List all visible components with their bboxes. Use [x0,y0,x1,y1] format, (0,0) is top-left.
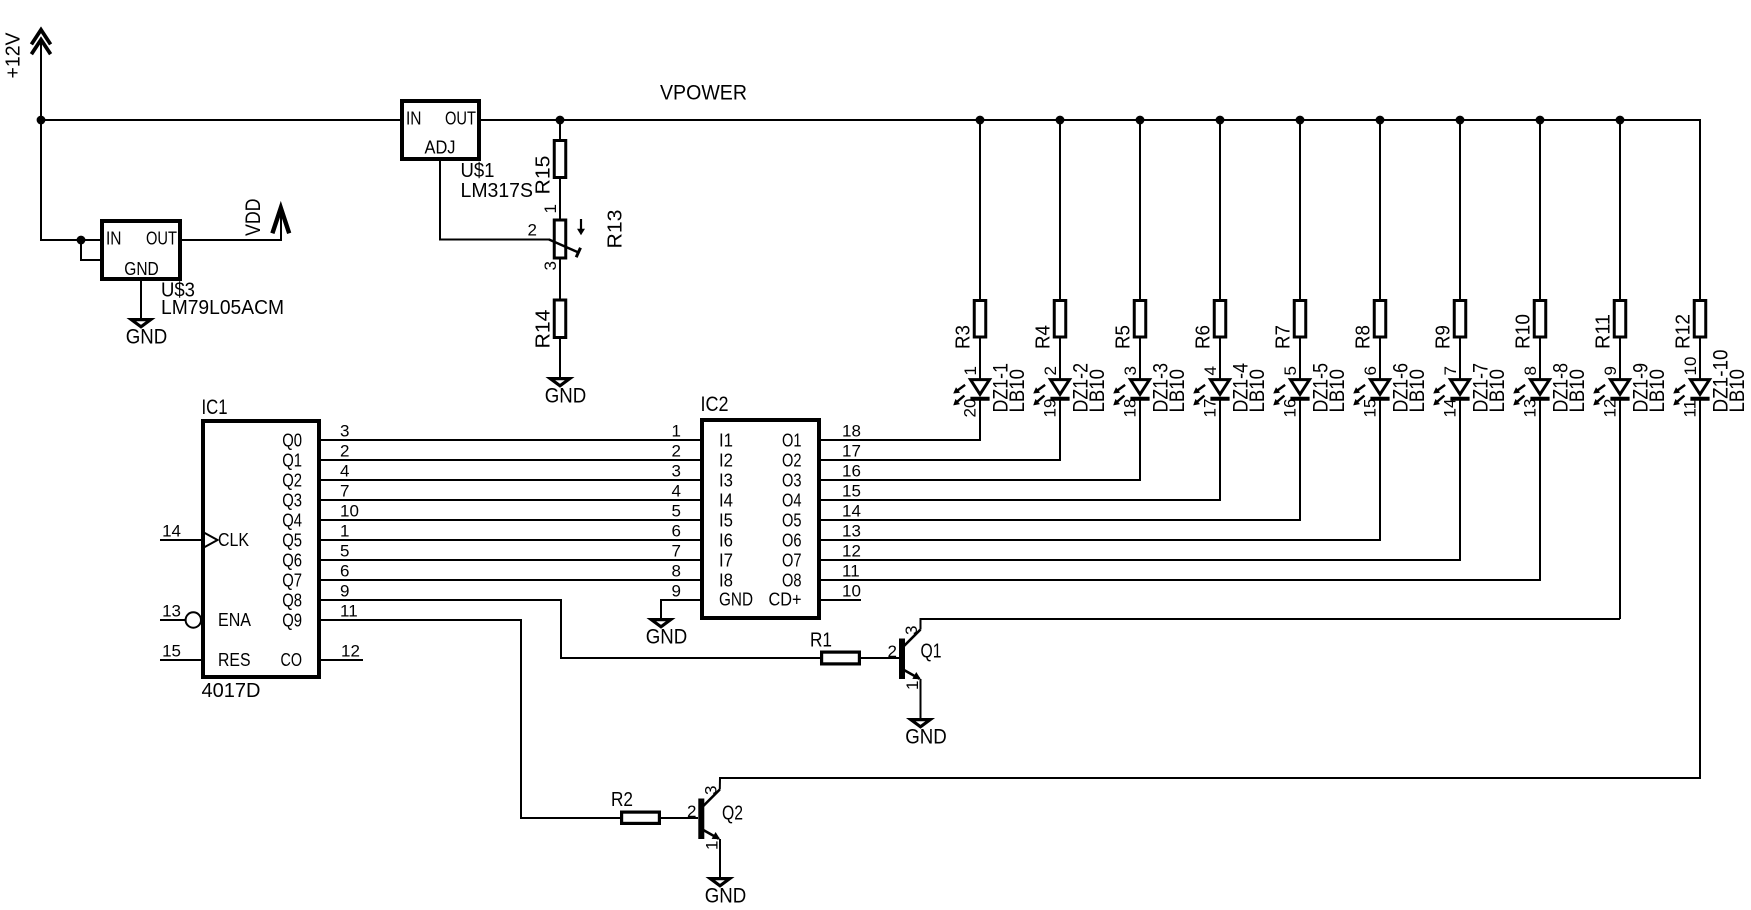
wire DZ1-8 cathode to IC2 O8 [821,399,1540,580]
wire VPOWER to R15 [559,120,561,140]
wire IC1 Q8 to R1 [321,600,820,658]
svg-text:Q9: Q9 [282,611,302,631]
svg-text:Q7: Q7 [282,571,302,591]
wire R1 to Q1 base [861,657,899,659]
wire VPOWER to R12 [1699,120,1701,300]
node VPOWER junction column 2 [1056,116,1065,125]
wire VPOWER to R9 [1459,120,1461,300]
wire ENA stub [160,619,186,621]
svg-text:12: 12 [341,642,360,661]
power symbol +12V [31,30,50,54]
LED DZ1-2 [1033,380,1069,406]
svg-text:11: 11 [842,562,860,581]
svg-text:Q1: Q1 [921,641,942,663]
svg-text:LB10: LB10 [1486,369,1509,413]
svg-text:10: 10 [842,582,861,601]
resistor R4 [1054,301,1066,338]
wire Q1 emitter to ground [920,679,922,718]
svg-text:I7: I7 [719,551,733,571]
wire CLK stub [160,539,201,541]
wire U$3 GND pin [140,281,142,318]
wire R5 to DZ1-3 [1139,339,1141,380]
svg-text:8: 8 [1521,366,1540,375]
resistor R7 [1294,301,1306,338]
wire R3 to DZ1-1 [979,339,981,380]
wire IC1 Q6 to IC2 I7 [321,559,700,561]
svg-text:IC1: IC1 [202,396,228,419]
svg-text:Q6: Q6 [282,551,302,571]
svg-text:R6: R6 [1193,325,1215,349]
wire VPOWER to R7 [1299,120,1301,300]
IC1 ENA inversion bubble [186,612,201,627]
resistor R10 [1534,301,1546,338]
resistor R3 [974,301,986,338]
svg-text:LB10: LB10 [1326,369,1349,413]
svg-text:5: 5 [1281,366,1300,375]
node VPOWER junction column 1 [976,116,985,125]
svg-text:Q1: Q1 [282,451,302,471]
svg-text:8: 8 [672,562,681,581]
wire IC1 Q7 to IC2 I8 [321,579,700,581]
LED DZ1-6 [1353,380,1389,406]
svg-text:15: 15 [842,482,861,501]
svg-text:U$1: U$1 [461,160,495,182]
wire VPOWER to R3 [979,120,981,300]
svg-text:6: 6 [672,522,681,541]
svg-text:R4: R4 [1033,325,1055,349]
wire VPOWER rail left of U$1 [41,119,400,121]
wire DZ1-3 cathode to IC2 O3 [821,399,1140,480]
svg-text:2: 2 [687,802,696,821]
svg-text:3: 3 [701,786,720,795]
svg-text:14: 14 [162,522,181,541]
svg-text:LB10: LB10 [1646,369,1669,413]
wire VPOWER to R5 [1139,120,1141,300]
svg-text:12: 12 [1601,399,1620,418]
svg-text:CLK: CLK [218,530,249,550]
svg-text:GND: GND [905,726,947,749]
svg-text:GND: GND [545,385,587,408]
svg-text:5: 5 [672,502,681,521]
svg-text:R5: R5 [1113,325,1135,349]
wire R9 to DZ1-7 [1459,339,1461,380]
svg-text:I3: I3 [719,471,733,491]
wire IC1 Q4 to IC2 I5 [321,519,700,521]
wire VPOWER to R11 [1619,120,1621,300]
svg-text:10: 10 [1681,357,1700,376]
node VPOWER junction column 4 [1216,116,1225,125]
wire CD+ stub [821,599,861,601]
svg-text:I8: I8 [719,571,733,591]
resistor R14 [554,300,566,338]
svg-text:RES: RES [218,650,251,670]
svg-text:ADJ: ADJ [425,138,456,158]
wire R13 to R14 [559,260,561,300]
IC1 clock triangle [202,532,218,549]
node VPOWER junction column 3 [1136,116,1145,125]
LED DZ1-3 [1113,380,1149,406]
svg-text:VPOWER: VPOWER [660,82,747,105]
svg-text:1: 1 [340,522,349,541]
svg-text:LB10: LB10 [1726,369,1749,413]
svg-text:ENA: ENA [218,610,251,630]
wire IC1 Q2 to IC2 I3 [321,479,700,481]
svg-text:I1: I1 [719,431,733,451]
svg-text:LB10: LB10 [1406,369,1429,413]
wire DZ1-9 cathode down [1619,399,1621,619]
svg-text:VDD: VDD [242,199,265,237]
wire DZ1-7 cathode to IC2 O7 [821,399,1460,560]
svg-text:R8: R8 [1353,325,1375,349]
svg-text:CO: CO [281,650,303,670]
wire +12V to U$3 IN [40,239,100,241]
svg-text:9: 9 [340,582,349,601]
wire Q2 emitter to ground [719,839,721,877]
svg-text:13: 13 [842,522,861,541]
svg-text:I4: I4 [719,491,733,511]
svg-text:2: 2 [888,642,897,661]
wire DZ1-6 cathode to IC2 O6 [821,399,1380,540]
resistor R9 [1454,301,1466,338]
svg-text:2: 2 [672,442,681,461]
wire DZ1-10 cathode down [1699,399,1701,778]
svg-text:4: 4 [1201,366,1220,375]
transistor Q2 [698,790,720,840]
resistor R1 [822,652,860,664]
svg-text:Q2: Q2 [722,803,743,825]
wire Q2 collector [720,778,1701,790]
svg-text:R14: R14 [533,310,555,349]
wire CO stub [321,659,363,661]
wire IC1 Q9 to R2 [321,620,620,818]
wire DZ1-1 cathode to IC2 O1 [821,399,980,440]
svg-text:1: 1 [702,841,721,850]
svg-text:O5: O5 [782,511,802,531]
wire DZ1-2 cathode to IC2 O2 [821,399,1060,460]
svg-text:GND: GND [126,326,168,349]
wire VPOWER to R10 [1539,120,1541,300]
svg-text:7: 7 [672,542,681,561]
svg-text:OUT: OUT [445,109,476,129]
svg-text:LB10: LB10 [1086,369,1109,413]
wire U$3 input loop [81,240,100,260]
voltage regulator U$3 box [102,221,180,279]
svg-text:LB10: LB10 [1246,369,1269,413]
svg-text:Q3: Q3 [282,491,302,511]
LED DZ1-4 [1193,380,1229,406]
svg-text:I5: I5 [719,511,733,531]
wire IC1 Q0 to IC2 I1 [321,439,700,441]
svg-text:IN: IN [106,229,122,249]
svg-text:3: 3 [902,626,921,635]
node VPOWER junction column 6 [1376,116,1385,125]
svg-text:13: 13 [1521,399,1540,418]
svg-text:3: 3 [672,462,681,481]
wire R12 to DZ1-10 [1699,339,1701,380]
node VPOWER junction at +12V [37,116,46,125]
svg-text:R11: R11 [1593,314,1615,349]
svg-text:7: 7 [340,482,349,501]
svg-text:O8: O8 [782,571,802,591]
LED DZ1-9 [1593,380,1629,406]
svg-text:+12V: +12V [3,32,25,79]
ground symbol under Q2 [710,879,729,886]
svg-text:O7: O7 [782,551,802,571]
ground symbol under Q1 [911,720,930,727]
svg-text:GND: GND [124,259,159,279]
svg-text:O2: O2 [782,451,802,471]
svg-text:IC2: IC2 [701,393,729,416]
svg-text:GND: GND [646,626,688,649]
svg-text:OUT: OUT [146,229,177,249]
wire VPOWER to R6 [1219,120,1221,300]
svg-text:12: 12 [842,542,861,561]
svg-text:1: 1 [541,204,560,213]
wire R4 to DZ1-2 [1059,339,1061,380]
wire VPOWER to R4 [1059,120,1061,300]
svg-text:I2: I2 [719,451,733,471]
voltage regulator U$1 box [402,101,479,159]
svg-text:2: 2 [1041,366,1060,375]
svg-text:15: 15 [162,642,181,661]
wire R7 to DZ1-5 [1299,339,1301,380]
svg-text:1: 1 [961,366,980,375]
svg-text:LM317S: LM317S [461,180,534,202]
resistor R8 [1374,301,1386,338]
svg-text:R9: R9 [1433,325,1455,349]
node VPOWER junction column 7 [1456,116,1465,125]
svg-text:4: 4 [340,462,349,481]
svg-text:9: 9 [1601,366,1620,375]
svg-text:6: 6 [1361,366,1380,375]
wire R14 to ground [559,339,561,377]
wire VPOWER to R8 [1379,120,1381,300]
wire IC1 Q1 to IC2 I2 [321,459,700,461]
svg-text:CD+: CD+ [769,590,802,610]
svg-text:O4: O4 [782,491,802,511]
svg-text:GND: GND [705,885,747,908]
LED DZ1-8 [1513,380,1549,406]
svg-text:16: 16 [1281,399,1300,418]
power symbol VDD arrow [272,208,289,233]
svg-text:O3: O3 [782,471,802,491]
svg-text:R7: R7 [1273,325,1295,349]
LED DZ1-10 [1673,380,1709,406]
LED DZ1-7 [1433,380,1469,406]
node VPOWER junction column 8 [1536,116,1545,125]
svg-text:9: 9 [672,582,681,601]
trimmer potentiometer R13 [549,219,585,258]
wire VPOWER rail right of U$1 [481,119,1701,121]
svg-text:7: 7 [1441,366,1460,375]
LED DZ1-5 [1273,380,1309,406]
svg-text:R13: R13 [605,210,627,249]
svg-text:17: 17 [842,442,861,461]
svg-text:I6: I6 [719,531,733,551]
svg-text:14: 14 [842,502,861,521]
wire IC2 GND to ground [661,600,700,618]
wire DZ1-5 cathode to IC2 O5 [821,399,1300,520]
driver IC2 box [702,420,819,618]
wire U$1 ADJ to R13 wiper [440,161,550,240]
wire R2 to Q2 base [661,817,698,819]
LED DZ1-1 [953,380,989,406]
svg-text:Q2: Q2 [282,471,302,491]
svg-text:6: 6 [340,562,349,581]
svg-text:5: 5 [340,542,349,561]
svg-text:1: 1 [672,422,681,441]
svg-text:Q0: Q0 [282,431,302,451]
wire R6 to DZ1-4 [1219,339,1221,380]
svg-text:Q4: Q4 [282,511,302,531]
wire R8 to DZ1-6 [1379,339,1381,380]
svg-text:4: 4 [672,482,681,501]
resistor R6 [1214,301,1226,338]
transistor Q1 [899,630,921,680]
svg-text:11: 11 [1681,400,1700,418]
node VPOWER junction at R15 [556,116,565,125]
svg-text:11: 11 [340,602,358,621]
svg-text:20: 20 [961,399,980,418]
svg-text:Q8: Q8 [282,591,302,611]
svg-text:15: 15 [1361,399,1380,418]
resistor R11 [1614,301,1626,338]
svg-text:O6: O6 [782,531,802,551]
svg-text:3: 3 [541,261,560,270]
svg-text:LB10: LB10 [1006,369,1029,413]
wire U$3 OUT to VDD [182,208,281,240]
svg-text:GND: GND [719,590,753,610]
svg-text:LM79L05ACM: LM79L05ACM [161,297,284,319]
wire R11 to DZ1-9 [1619,339,1621,380]
node VPOWER junction column 5 [1296,116,1305,125]
wire Q1 collector [921,619,1621,630]
svg-text:R10: R10 [1513,314,1535,349]
wire RES stub [160,659,201,661]
wire IC1 Q3 to IC2 I4 [321,499,700,501]
svg-text:14: 14 [1441,399,1460,418]
wire R15 to R13 [559,179,561,219]
svg-text:IN: IN [406,109,422,129]
svg-text:R2: R2 [611,789,633,811]
svg-text:10: 10 [340,502,359,521]
node VPOWER junction column 9 [1616,116,1625,125]
node junction at U$3 input [77,236,86,245]
svg-text:LB10: LB10 [1166,369,1189,413]
svg-text:18: 18 [842,422,861,441]
svg-text:19: 19 [1041,399,1060,418]
resistor R15 [554,141,566,178]
svg-text:16: 16 [842,462,861,481]
svg-text:R3: R3 [953,325,975,349]
wire +12V vertical [40,40,42,240]
svg-text:3: 3 [1121,366,1140,375]
ground symbol under R14 [550,379,569,386]
wire DZ1-4 cathode to IC2 O4 [821,399,1220,500]
svg-text:17: 17 [1201,399,1220,418]
svg-text:2: 2 [340,442,349,461]
svg-text:O1: O1 [782,431,802,451]
wire IC1 Q5 to IC2 I6 [321,539,700,541]
svg-text:R12: R12 [1673,314,1695,349]
counter IC1 box [203,421,319,677]
resistor R5 [1134,301,1146,338]
svg-text:4017D: 4017D [202,680,261,702]
svg-text:3: 3 [340,422,349,441]
svg-text:1: 1 [903,681,922,690]
svg-text:R15: R15 [533,156,555,195]
wire R10 to DZ1-8 [1539,339,1541,380]
svg-text:13: 13 [162,602,181,621]
svg-text:Q5: Q5 [282,531,302,551]
ground symbol under U$3 [131,320,150,327]
svg-text:R1: R1 [810,630,832,652]
resistor R12 [1694,301,1706,338]
svg-text:2: 2 [528,221,537,240]
svg-text:LB10: LB10 [1566,369,1589,413]
svg-text:18: 18 [1121,399,1140,418]
resistor R2 [622,812,660,823]
ground symbol under IC2 [651,620,670,627]
